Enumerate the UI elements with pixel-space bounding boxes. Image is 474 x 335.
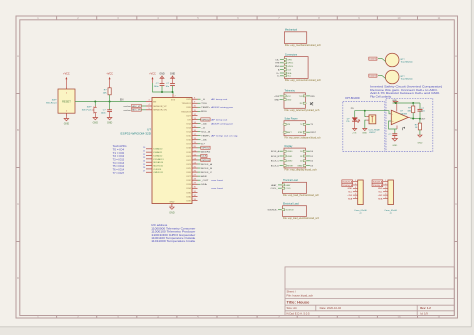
svg-text:IO15/AD13: IO15/AD13 — [153, 158, 164, 161]
ground (above C3) — [170, 73, 176, 84]
svg-text:10K: 10K — [103, 92, 107, 94]
svg-text:GND: GND — [274, 99, 279, 101]
svg-text:RESET: RESET — [287, 166, 294, 168]
svg-text:Mechanical: Mechanical — [285, 29, 298, 32]
svg-text:2: 2 — [385, 183, 386, 185]
svg-text:res/sen: res/sen — [124, 105, 132, 108]
pin IO39 (U1 right) — [186, 199, 197, 203]
svg-text:14: 14 — [194, 122, 196, 124]
svg-text:GPIO: GPIO — [287, 59, 292, 61]
pin IO17 (U1 right) — [186, 142, 206, 146]
svg-text:24: 24 — [194, 162, 196, 164]
svg-text:2: 2 — [355, 183, 356, 185]
pin IO27 (U1 right) — [186, 175, 207, 179]
svg-text:SCL_B: SCL_B — [201, 131, 211, 133]
svg-text:KiCad E.D.A. 5.0.5: KiCad E.D.A. 5.0.5 — [287, 311, 311, 315]
svg-text:GND: GND — [170, 73, 176, 76]
pin IO25 (U1 right) — [186, 98, 227, 102]
node PD label — [351, 108, 354, 110]
ground (below SW1) — [93, 115, 99, 125]
pin IO14 (U1 right) — [186, 130, 211, 134]
svg-text:25: 25 — [194, 166, 196, 168]
svg-text:D: D — [17, 276, 19, 280]
module OPT-BOARD left dashed box — [343, 102, 385, 152]
junction — [412, 102, 414, 104]
wire net EN — [75, 101, 146, 103]
svg-text:+VCC: +VCC — [149, 73, 156, 76]
svg-text:T1 = IO0: T1 = IO0 — [113, 153, 125, 155]
wire 3V3 rail — [153, 83, 174, 94]
title block — [285, 267, 454, 316]
svg-text:5: 5 — [148, 108, 149, 110]
svg-text:27: 27 — [143, 171, 145, 173]
ground (below C4) — [392, 138, 397, 147]
svg-text:LINE1: LINE1 — [287, 156, 292, 158]
svg-text:ADC_VN: ADC_VN — [132, 109, 141, 112]
svg-text:D0: D0 — [300, 151, 302, 153]
svg-text:IO4/AD10: IO4/AD10 — [153, 148, 163, 151]
op-amp U2 — [391, 110, 408, 124]
svg-text:SDA: SDA — [348, 197, 353, 200]
module OPT-BOARD label — [345, 97, 360, 100]
svg-text:Solar Power: Solar Power — [285, 118, 298, 121]
svg-text:+VCC: +VCC — [106, 73, 113, 76]
svg-text:SW_Push: SW_Push — [82, 109, 93, 111]
svg-text:SD0/TD15: SD0/TD15 — [153, 165, 164, 167]
svg-text:SOURCE_: SOURCE_ — [267, 210, 278, 212]
svg-text:24: 24 — [143, 161, 145, 163]
svg-text:TEMP+: TEMP+ — [201, 135, 211, 137]
svg-text:TouchButton: TouchButton — [401, 78, 414, 81]
svg-text:21: 21 — [194, 150, 196, 152]
svg-text:3: 3 — [148, 100, 149, 102]
svg-text:T4 = IO13: T4 = IO13 — [113, 163, 125, 165]
svg-text:D2: D2 — [300, 161, 302, 163]
sheet Thermal Load — [270, 179, 319, 197]
svg-text:GPIO4: GPIO4 — [287, 66, 293, 68]
svg-text:6: 6 — [385, 197, 386, 199]
pin IO23 (U1 right) — [186, 162, 212, 166]
svg-text:GND: GND — [378, 188, 383, 190]
pin IO19 (U1 right) — [186, 150, 211, 154]
svg-text:+VS: +VS — [352, 133, 357, 135]
svg-text:RXD0/IO3: RXD0/IO3 — [181, 111, 191, 113]
svg-text:RESET: RESET — [62, 99, 71, 103]
svg-text:ADR: ADR — [201, 175, 207, 178]
capacitor C2 — [154, 83, 165, 92]
svg-text:13: 13 — [194, 118, 196, 120]
svg-text:SD1/AD14: SD1/AD14 — [153, 161, 164, 164]
svg-text:27: 27 — [194, 175, 196, 177]
svg-text:16: 16 — [194, 130, 196, 132]
svg-text:GND: GND — [169, 211, 175, 214]
note Touch-GPIOs list — [113, 146, 128, 175]
pin IO36 (U1 right) — [186, 195, 197, 199]
connector J? Conn_01x06 — [372, 180, 398, 215]
svg-text:Thermal Load: Thermal Load — [283, 179, 298, 182]
svg-text:100n: 100n — [154, 86, 160, 88]
svg-text:_04: _04 — [200, 123, 208, 125]
svg-text:EN: EN — [153, 101, 156, 103]
svg-text:28: 28 — [194, 179, 196, 181]
pin IO15/AD13 (U1 left) — [143, 157, 164, 161]
sheet Electrical Load — [267, 203, 319, 221]
svg-text:IO0/AD11: IO0/AD11 — [153, 151, 163, 154]
junction — [109, 101, 111, 103]
svg-text:GPIO2: GPIO2 — [202, 119, 211, 121]
svg-text:EN: EN — [120, 98, 124, 101]
junction — [419, 118, 421, 120]
sheet Display — [271, 145, 318, 172]
svg-text:1: 1 — [385, 77, 386, 79]
wire op-amp plus input — [389, 121, 397, 129]
svg-text:B: B — [17, 128, 19, 132]
svg-text:GND: GND — [417, 143, 422, 145]
svg-text:GPIO2: GPIO2 — [202, 148, 211, 150]
pin SENSOR_VP + hierarchical label — [124, 104, 168, 108]
svg-text:1: 1 — [385, 60, 386, 62]
svg-text:BEAT: BEAT — [298, 165, 304, 168]
svg-text:22: 22 — [143, 154, 145, 156]
wire photodiode rail — [355, 111, 392, 118]
svg-text:21: 21 — [143, 150, 145, 152]
svg-text:CLK: CLK — [202, 156, 208, 158]
svg-text:GND: GND — [107, 122, 113, 125]
svg-text:GND: GND — [159, 73, 165, 76]
svg-text:31: 31 — [194, 191, 196, 193]
svg-text:23: 23 — [194, 158, 196, 160]
svg-text:+3V3: +3V3 — [274, 96, 280, 98]
svg-text:T2 = IO2: T2 = IO2 — [113, 156, 125, 158]
svg-text:3: 3 — [385, 187, 386, 189]
svg-text:T0 = IO4: T0 = IO4 — [113, 150, 125, 152]
svg-text:TX0: TX0 — [299, 96, 302, 98]
svg-text:File: esp_telemetry.kicad_sch: File: esp_telemetry.kicad_sch — [285, 109, 321, 112]
pin IO18 (U1 right) — [186, 146, 210, 150]
ic U1 ESP32-WROOM-32D body — [152, 98, 192, 204]
svg-text:26: 26 — [194, 171, 196, 173]
no-connect marks — [310, 102, 313, 106]
ground (below R3) — [417, 135, 422, 144]
svg-text:GPIO2: GPIO2 — [287, 63, 293, 65]
svg-text:BCLK_C: BCLK_C — [271, 161, 280, 163]
svg-text:TEMP+: TEMP+ — [201, 107, 211, 109]
note inverted safety circuit — [370, 85, 442, 99]
svg-text:File: esp_load_thermal.kicad_s: File: esp_load_thermal.kicad_sch — [283, 194, 320, 197]
svg-text:CMD/IO11: CMD/IO11 — [153, 172, 164, 174]
svg-text:TOUCH_A: TOUCH_A — [342, 180, 352, 183]
svg-text:TOUCH_B: TOUCH_B — [369, 76, 377, 78]
svg-text:11011000 Temperature Inside: 11011000 Temperature Inside — [151, 239, 196, 243]
svg-text:GND: GND — [287, 99, 292, 101]
pin IO0/AD11 (U1 left) — [143, 150, 163, 154]
pin IO22 (U1 right) — [186, 158, 210, 162]
svg-text:Sheet: /: Sheet: / — [287, 289, 297, 293]
junction — [94, 101, 96, 103]
svg-text:BCLK_A: BCLK_A — [201, 163, 212, 166]
svg-text:4: 4 — [355, 190, 356, 192]
svg-text:SCL: SCL — [287, 76, 291, 78]
svg-text:File: esp_display.kicad_sch: File: esp_display.kicad_sch — [285, 169, 318, 172]
resistor R1 pull-up — [103, 88, 112, 102]
svg-text:12: 12 — [194, 114, 196, 116]
svg-text:25: 25 — [143, 164, 145, 166]
svg-text:TOUCH_B: TOUCH_B — [373, 185, 383, 187]
svg-text:C: C — [17, 202, 19, 206]
svg-text:Touch-GPIOs: Touch-GPIOs — [113, 146, 128, 148]
svg-text:ADDR2: ADDR2 — [201, 151, 211, 154]
pin IO26 (U1 right) — [186, 171, 212, 175]
svg-text:TOUCH_B: TOUCH_B — [342, 185, 352, 187]
power +VCC (above R1) — [106, 73, 113, 88]
svg-text:26: 26 — [143, 167, 145, 169]
svg-text:2: 2 — [175, 96, 176, 98]
svg-text:Size: A4: Size: A4 — [287, 306, 298, 310]
resistor R3 — [415, 119, 422, 135]
svg-text:22: 22 — [194, 154, 196, 156]
svg-text:GND: GND — [64, 123, 70, 126]
ground (below C1) — [107, 115, 113, 125]
wire op-amp top rail — [393, 102, 421, 104]
svg-text:SW_Reset: SW_Reset — [46, 101, 57, 104]
pin IO27 (U1 right) — [186, 114, 197, 118]
svg-text:ADDR wiring pwr: ADDR wiring pwr — [211, 122, 233, 125]
svg-text:IO2/AD12: IO2/AD12 — [153, 154, 163, 157]
note I2C address list — [151, 223, 196, 243]
svg-text:one heat: one heat — [211, 179, 223, 182]
svg-text:COOL: COOL — [286, 188, 291, 190]
svg-text:_05: _05 — [200, 140, 208, 142]
svg-text:Display: Display — [285, 145, 294, 148]
svg-text:BCLK_B: BCLK_B — [201, 168, 212, 170]
svg-text:33: 33 — [194, 199, 196, 201]
svg-text:D: D — [455, 276, 457, 280]
svg-text:Telemetry: Telemetry — [285, 90, 296, 93]
pin SENSOR_VN + hierarchical label — [124, 108, 168, 112]
svg-text:RXD: RXD — [310, 96, 315, 98]
module OPT-BOARD right dashed box — [386, 98, 433, 151]
capacitor C3 — [165, 83, 174, 92]
svg-text:D-: D- — [277, 76, 280, 78]
svg-text:SDA: SDA — [378, 197, 383, 200]
svg-text:AF temp out: AF temp out — [211, 118, 227, 121]
svg-text:COOL_: COOL_ — [270, 188, 278, 190]
svg-text:TouchButton: TouchButton — [401, 61, 414, 64]
pin IO34 (U1 right) — [186, 187, 223, 191]
svg-text:SDA: SDA — [201, 183, 207, 186]
svg-text:5: 5 — [385, 194, 386, 196]
svg-text:18: 18 — [194, 138, 196, 140]
pin CLK/IO6 (U1 left) — [143, 167, 162, 171]
svg-text:8: 8 — [194, 98, 195, 100]
svg-text:10: 10 — [194, 106, 196, 108]
svg-text:5: 5 — [355, 194, 356, 196]
wire op-amp vminus pin — [395, 126, 405, 134]
svg-text:res/sen: res/sen — [124, 109, 132, 112]
svg-text:ADDR wiring pwr: ADDR wiring pwr — [211, 106, 233, 109]
sheet Telemetry — [274, 90, 320, 112]
svg-text:Date: 2020-10-02: Date: 2020-10-02 — [320, 306, 342, 310]
svg-text:9: 9 — [194, 102, 195, 104]
svg-text:HEAT_: HEAT_ — [271, 184, 278, 187]
junction — [364, 110, 366, 112]
svg-text:SW?: SW? — [87, 107, 93, 109]
svg-text:A: A — [17, 54, 19, 58]
sheet Mechanical — [284, 29, 321, 47]
power +VCC (chip supply) — [149, 73, 156, 84]
svg-text:T7 = IO27: T7 = IO27 — [113, 173, 125, 175]
svg-text:ADC_VP: ADC_VP — [132, 105, 141, 108]
svg-text:6: 6 — [355, 197, 356, 199]
svg-text:4: 4 — [385, 190, 386, 192]
photoresistor R4 (boxed LDR) — [365, 111, 380, 134]
svg-text:30: 30 — [194, 187, 196, 189]
connector J1 RESET — [46, 88, 75, 117]
svg-text:SOURCE: SOURCE — [286, 210, 295, 212]
svg-text:AF temp out: AF temp out — [211, 98, 227, 101]
pin IO4/AD10 (U1 left) — [143, 147, 163, 151]
pin IO25 (U1 right) — [186, 166, 212, 170]
svg-text:File: house.kicad_sch: File: house.kicad_sch — [287, 294, 314, 298]
photodiode D1 — [346, 118, 359, 129]
pin EN (U1 left) — [146, 100, 157, 104]
ground (above C2) — [159, 73, 165, 84]
svg-text:C: C — [455, 202, 457, 206]
value label U1 ESP32-WROOM-32D — [121, 128, 152, 136]
power +VCC (above J1) — [63, 73, 70, 88]
node EN label — [120, 98, 124, 101]
junction — [412, 118, 414, 120]
svg-text:LM393: LM393 — [400, 113, 407, 115]
pin IO26 (U1 right) — [186, 106, 233, 110]
pin RXD0/IO3 (U1 right) — [181, 110, 207, 114]
svg-text:D1: D1 — [300, 156, 302, 158]
button BT1 TouchButton — [369, 53, 414, 67]
svg-text:OPT-BOARD: OPT-BOARD — [345, 97, 360, 100]
svg-text:11: 11 — [194, 110, 196, 112]
svg-text:BCLK_C: BCLK_C — [201, 172, 212, 174]
pin CMD/IO11 (U1 left) — [143, 171, 164, 175]
svg-text:PD: PD — [346, 121, 349, 123]
svg-text:HEAT: HEAT — [286, 184, 292, 187]
svg-text:RND: RND — [275, 66, 280, 68]
svg-text:File: esp_mechanical.kicad_sch: File: esp_mechanical.kicad_sch — [285, 44, 322, 47]
svg-text:GND: GND — [169, 202, 174, 204]
svg-text:CLK/IO6: CLK/IO6 — [153, 169, 162, 171]
svg-text:23: 23 — [143, 157, 145, 159]
pin SD0/TD15 (U1 left) — [143, 164, 164, 168]
svg-text:4: 4 — [148, 104, 149, 106]
svg-text:Rev: 1.2: Rev: 1.2 — [420, 306, 431, 310]
svg-text:100n: 100n — [101, 112, 107, 114]
ground (below J1) — [64, 116, 70, 126]
svg-text:RXDT: RXDT — [310, 132, 316, 134]
svg-text:TXD0/IO1: TXD0/IO1 — [182, 103, 192, 105]
svg-text:1: 1 — [385, 180, 386, 182]
svg-text:B: B — [455, 128, 457, 132]
svg-text:BCLK_A: BCLK_A — [271, 150, 280, 153]
svg-text:PD: PD — [351, 108, 354, 110]
svg-text:SENSOR_VP: SENSOR_VP — [153, 106, 167, 108]
capacitor C4 — [389, 134, 398, 139]
ground (top of op-amp supply) — [392, 100, 398, 112]
svg-text:17: 17 — [194, 134, 196, 136]
pin 3V3 (U1 top) — [171, 94, 176, 101]
svg-text:SENSOR_VN: SENSOR_VN — [153, 110, 167, 112]
svg-text:32: 32 — [194, 195, 196, 197]
svg-text:LINE0: LINE0 — [287, 151, 292, 153]
svg-text:29: 29 — [194, 183, 196, 185]
pin IO33 (U1 right) — [186, 183, 207, 187]
svg-text:_OUT: _OUT — [200, 180, 209, 182]
capacitor C1 — [101, 102, 112, 115]
svg-text:GND: GND — [392, 145, 397, 147]
ground (below D1) — [352, 129, 357, 135]
wire op-amp output OUT — [408, 117, 426, 120]
svg-text:BCLK_D: BCLK_D — [271, 166, 280, 168]
svg-text:GND: GND — [362, 133, 367, 135]
pin GND (U1 bottom) — [169, 202, 174, 208]
svg-text:ESP32-WROOM-32D: ESP32-WROOM-32D — [121, 132, 152, 136]
svg-text:GND: GND — [93, 122, 99, 125]
pin IO32 (U1 right) — [186, 179, 223, 183]
switch SW1 push button — [82, 102, 97, 115]
junction — [395, 102, 397, 104]
svg-text:LDR07: LDR07 — [369, 132, 376, 134]
svg-text:19: 19 — [194, 142, 196, 144]
pin IO9 (U1 right) — [187, 118, 227, 122]
pin IO2/AD12 (U1 left) — [143, 154, 163, 158]
pin IO16 (U1 right) — [186, 138, 207, 142]
capacitor C5 — [418, 103, 426, 119]
svg-text:File: esp_load_electrical.kica: File: esp_load_electrical.kicad_sch — [283, 217, 320, 220]
connector J? Conn_01x06 — [342, 180, 368, 215]
button BT2 TouchButton — [369, 70, 414, 84]
pin IO35 (U1 right) — [186, 191, 197, 195]
svg-text:1: 1 — [355, 180, 356, 182]
svg-text:GPIO0: GPIO0 — [202, 160, 211, 162]
svg-text:T5 = IO12: T5 = IO12 — [113, 166, 125, 168]
svg-text:GND: GND — [348, 188, 353, 190]
svg-text:TOUCH_A: TOUCH_A — [373, 180, 383, 183]
svg-text:15: 15 — [194, 126, 196, 128]
svg-text:Id: 1/9: Id: 1/9 — [420, 311, 428, 315]
pin IO21 (U1 right) — [186, 154, 207, 158]
svg-text:SW?: SW? — [52, 100, 58, 102]
svg-text:TOUCH_A: TOUCH_A — [369, 58, 377, 61]
junction — [161, 91, 163, 93]
pin IO12 (U1 right) — [186, 122, 233, 126]
ground (below Q1) — [362, 129, 367, 135]
svg-text:File: esp_power_solarpanel.kic: File: esp_power_solarpanel.kicad_sch — [285, 136, 322, 139]
svg-text:T3 = IO15: T3 = IO15 — [113, 159, 125, 161]
svg-text:Electrical Load: Electrical Load — [283, 203, 299, 206]
pin TXD0/IO1 (U1 right) — [182, 102, 208, 106]
ground (below U1) — [169, 207, 175, 214]
junction — [172, 91, 174, 93]
sheet Solar Power — [283, 118, 321, 140]
svg-text:Flip Cell polarity: Flip Cell polarity — [370, 94, 392, 98]
svg-text:3: 3 — [355, 187, 356, 189]
svg-text:+VCC: +VCC — [63, 73, 70, 76]
sheet Connectors — [275, 53, 322, 82]
svg-text:20: 20 — [143, 147, 145, 149]
svg-text:one heat: one heat — [211, 187, 223, 190]
pin SD1/AD14 (U1 left) — [143, 161, 164, 165]
pin IO13 (U1 right) — [186, 126, 206, 130]
svg-text:THE: THE — [275, 63, 280, 65]
svg-text:20: 20 — [194, 146, 196, 148]
